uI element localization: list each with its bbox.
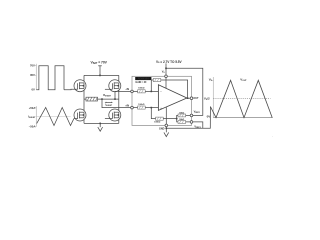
op-amp IC AD8418A box (132, 76, 192, 125)
wire: Q3 source to bottom rail (83, 118, 85, 123)
svg-text:35V: 35V (30, 73, 35, 77)
svg-text:VREF1: VREF1 (194, 109, 200, 113)
svg-text:–50A: –50A (29, 124, 36, 128)
wire: VREF2 to ground run (193, 122, 203, 128)
node: shunt sense left (101, 98, 103, 100)
wire: Q1 drain lead (83, 75, 85, 82)
transistor Q3 (bottom-left) NMOS (74, 109, 86, 121)
svg-text:+50A: +50A (29, 106, 36, 110)
svg-text:OUT: OUT (193, 97, 199, 100)
wire: top rail (84, 74, 119, 76)
pin VREF2 (190, 121, 201, 129)
pin GND (159, 124, 168, 130)
wire: Q4 source to bottom rail (118, 118, 120, 123)
pin OUT (190, 97, 199, 100)
pin +IN (125, 104, 133, 108)
internal wire: GND pin stub (165, 107, 167, 124)
wire: square wave output to Q1 gate (64, 88, 78, 90)
gate-drive square wave plot (30, 63, 64, 91)
output waveform plot (204, 77, 273, 118)
wire: Q4 drain lead (118, 99, 120, 112)
internal feedback resistor (153, 79, 161, 82)
internal ref wire (bottom) (151, 108, 176, 119)
wire: Q1 source to bridge mid (83, 89, 85, 99)
shunt current triangle wave plot (28, 106, 74, 129)
internal wire: ref to VREF1 (177, 115, 191, 118)
pin VREF1 (190, 109, 200, 116)
wire: sense to -IN (115, 91, 131, 99)
svg-text:ISHUNT: ISHUNT (28, 115, 36, 119)
pin VS (165, 75, 168, 78)
svg-text:AD8418A: AD8418A (138, 77, 150, 81)
wire: Q2 source to bridge mid (118, 89, 120, 99)
internal resistor on -IN path (138, 88, 146, 93)
internal wire: +IN to amp (133, 107, 158, 109)
svg-text:VBAT = 70V: VBAT = 70V (90, 60, 107, 64)
svg-text:0V: 0V (31, 88, 35, 92)
label AD8418A (135, 77, 151, 85)
wire: bottom rail (84, 122, 119, 124)
wire: Q2 gate stub (105, 88, 113, 90)
transistor Q2 (top-right) NMOS (109, 80, 121, 92)
wire: GND pin to ground (165, 127, 167, 133)
internal resistor on +IN path (138, 104, 146, 109)
transistor Q1 (top-left) NMOS (74, 80, 86, 92)
svg-text:100kΩ: 100kΩ (138, 88, 144, 90)
svg-text:GAIN = 20: GAIN = 20 (135, 81, 147, 84)
svg-text:100kΩ: 100kΩ (138, 104, 144, 106)
node: feedback/output junction (187, 97, 189, 99)
node: VBAT / top rail junction (99, 75, 101, 77)
svg-text:–IN: –IN (125, 88, 129, 91)
node: ref split junction (176, 118, 178, 120)
wire: Q3 drain lead (83, 99, 85, 112)
transistor Q4 (bottom-right) NMOS (109, 109, 121, 121)
wire: bridge mid rail (84, 98, 119, 100)
internal wire: amp output to OUT pin (187, 97, 190, 99)
op-amp U1 triangle (158, 85, 187, 111)
node: -IN feedback junction (151, 91, 153, 93)
wire: VS to VREF1 (166, 68, 203, 115)
wire: Q4 gate stub (105, 118, 113, 120)
svg-text:GND: GND (159, 127, 165, 130)
pin -IN (125, 88, 133, 93)
svg-text:VS = 2.7V TO 5.5V: VS = 2.7V TO 5.5V (156, 60, 183, 64)
wire: ground run to output plot 0V (166, 107, 210, 129)
node: GND run junction (166, 128, 168, 130)
internal resistor 50k (VREF2) (178, 119, 186, 123)
wire: sense to +IN (102, 99, 131, 108)
internal wire: VS pin stub (165, 78, 167, 89)
node: shunt sense right (114, 98, 116, 100)
svg-text:RSHUNT: RSHUNT (103, 94, 112, 97)
svg-text:70V: 70V (30, 63, 35, 67)
ground (IC) (164, 132, 169, 136)
svg-text:100kΩ: 100kΩ (154, 122, 160, 124)
node: VS branch junction (165, 68, 167, 70)
ground (bridge) (98, 123, 103, 132)
svg-text:0V: 0V (207, 114, 211, 118)
svg-text:VOUT: VOUT (240, 78, 247, 82)
svg-text:VS: VS (209, 78, 213, 82)
wire: Q2 drain lead (118, 75, 120, 82)
internal wire: -IN to amp (133, 90, 158, 92)
svg-text:VS: VS (162, 71, 166, 74)
supply VBAT = 70V (90, 60, 107, 75)
svg-text:VS/2: VS/2 (204, 96, 210, 100)
supply VS = 2.7V TO 5.5V (156, 60, 183, 75)
node: +IN ref junction (151, 107, 153, 109)
internal wire: ref to VREF2 (177, 119, 191, 122)
svg-text:+IN: +IN (125, 104, 129, 107)
current arrow ISHUNT (105, 102, 113, 107)
resistor RSHUNT (86, 94, 112, 101)
internal feedback wire (top) (151, 80, 187, 98)
svg-text:.: . (273, 135, 274, 137)
svg-text:ISHUNT: ISHUNT (105, 104, 113, 107)
internal ref resistor 100k (154, 117, 163, 124)
wire: triangle plot to Q3 gate (74, 118, 78, 120)
internal resistor 50k (VREF1) (178, 113, 186, 117)
